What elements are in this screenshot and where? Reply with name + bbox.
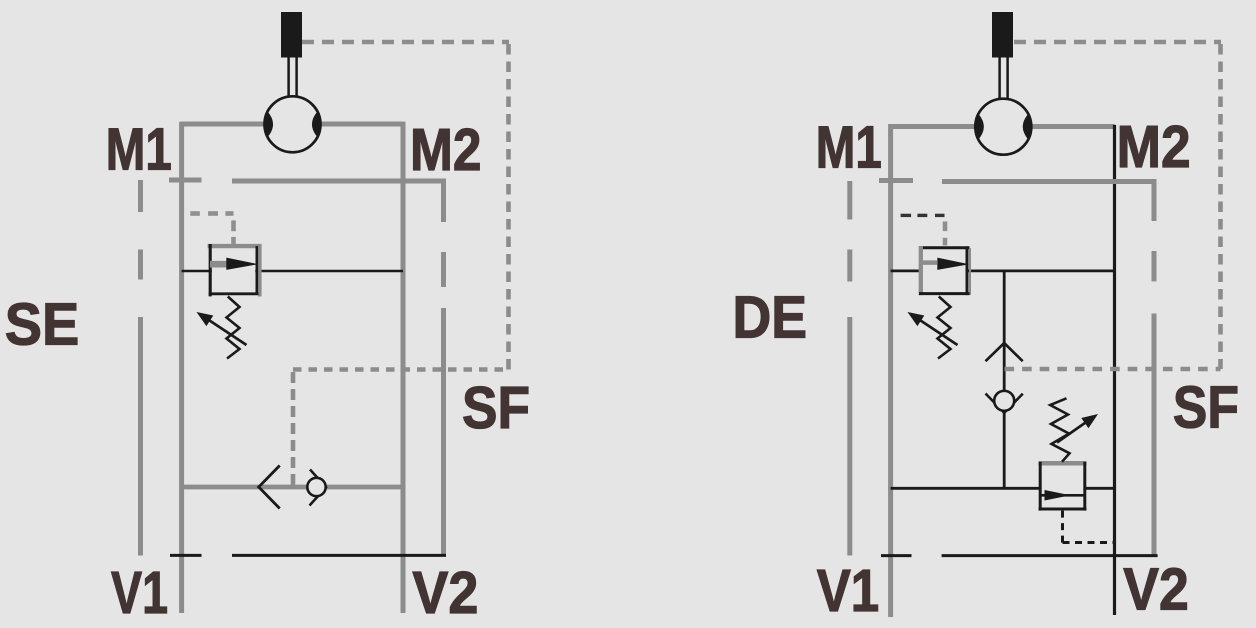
svg-text:SE: SE xyxy=(5,291,80,357)
svg-text:M2: M2 xyxy=(410,117,482,183)
svg-text:SF: SF xyxy=(462,375,530,441)
svg-text:M1: M1 xyxy=(816,115,882,181)
svg-text:M2: M2 xyxy=(1117,114,1191,180)
svg-text:DE: DE xyxy=(733,284,808,350)
svg-text:V1: V1 xyxy=(111,560,168,626)
svg-text:V1: V1 xyxy=(817,558,880,624)
svg-text:V2: V2 xyxy=(1123,557,1189,623)
svg-text:M1: M1 xyxy=(106,116,172,182)
svg-text:V2: V2 xyxy=(412,560,478,626)
svg-text:SF: SF xyxy=(1173,374,1239,440)
